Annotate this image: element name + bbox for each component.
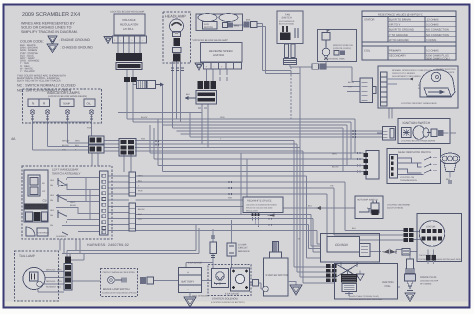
wire: top sub-bus xyxy=(118,112,202,114)
wire: indicator bus B4 xyxy=(104,151,335,283)
svg-text:BLK: BLK xyxy=(446,178,451,181)
wire: main bus A6 to ignition xyxy=(181,133,383,135)
svg-text:BLK/R TO GROUND: BLK/R TO GROUND xyxy=(389,29,414,32)
wire: fan motor feed xyxy=(233,24,291,71)
wire: solenoid to starter motor xyxy=(250,283,263,289)
svg-text:CIRCUIT AT O.SERIES: CIRCUIT AT O.SERIES xyxy=(392,72,415,75)
ground at starter motor xyxy=(288,282,302,296)
bullet connectors CDI to coil xyxy=(381,249,410,256)
magneto lower pin pair xyxy=(426,255,436,261)
wire: throttle connector taps xyxy=(343,87,360,92)
svg-text:Y/R: Y/R xyxy=(348,86,352,89)
note: two color wires xyxy=(17,75,66,83)
svg-text:BRN: BRN xyxy=(246,19,251,22)
svg-text:GRN: GRN xyxy=(332,153,337,156)
tail lamp LP2 xyxy=(15,251,63,301)
wire: indicator bus B3 xyxy=(104,148,336,278)
svg-text:MOTOR: MOTOR xyxy=(204,26,213,29)
ground at voltage regulator xyxy=(104,37,112,44)
wire: fan switch drop (solid) xyxy=(299,67,301,148)
svg-text:0.2 OHMS: 0.2 OHMS xyxy=(426,24,439,27)
hot lamp switch S4 xyxy=(355,196,411,219)
wire: handlebar box to lower bus xyxy=(60,239,80,254)
wire: harness run P10 xyxy=(136,231,321,245)
brake lamp switch S5 xyxy=(101,269,138,297)
wire: handlebar strip stubs xyxy=(108,176,129,231)
indicator lamp TEMP xyxy=(60,99,74,107)
wire: gear row 1 xyxy=(150,125,364,153)
wire: harness run P2 xyxy=(136,182,404,231)
svg-text:BLK: BLK xyxy=(186,93,191,96)
ignition switch S2 xyxy=(398,119,450,144)
headlamp LP1 xyxy=(163,12,191,63)
svg-text:REGULATOR: REGULATOR xyxy=(246,210,258,213)
throttle harness connector xyxy=(348,78,376,103)
svg-text:LOCATED ON ENGINE: LOCATED ON ENGINE xyxy=(387,204,411,207)
svg-text:LOCATED ON: LOCATED ON xyxy=(400,176,414,179)
svg-text:W TO GROUND: W TO GROUND xyxy=(389,39,409,42)
svg-text:GROUND: GROUND xyxy=(46,280,56,283)
svg-text:BATTERY: BATTERY xyxy=(182,280,195,284)
svg-text:OVERRIDE: OVERRIDE xyxy=(38,232,50,235)
svg-text:COIL: COIL xyxy=(364,50,371,53)
svg-text:RED/WHITE SPLICE: RED/WHITE SPLICE xyxy=(247,200,272,203)
svg-text:LIMITER: LIMITER xyxy=(213,53,224,57)
svg-text:LOCATED BELOW HEADLAMP: LOCATED BELOW HEADLAMP xyxy=(110,11,145,14)
wire: tail lamp leads xyxy=(38,272,64,293)
svg-text:BLK/R: BLK/R xyxy=(348,81,355,84)
svg-text:CIRCUIT SHOWN IN FREE POSN: CIRCUIT SHOWN IN FREE POSN xyxy=(103,271,136,274)
wire: main bus A1 xyxy=(127,119,364,153)
svg-text:GRN: GRN xyxy=(57,269,62,272)
gear indicator switch S3 xyxy=(387,149,441,184)
svg-text:Y TO GROUND: Y TO GROUND xyxy=(389,34,408,37)
wire: harness run P8 xyxy=(136,219,321,253)
ground at spark plug xyxy=(405,293,415,302)
wire: main bus A5 to ignition xyxy=(177,130,383,132)
starter solenoid K1 xyxy=(208,265,251,304)
svg-text:BLK/Y RED WITH YELLOW TRACER: BLK/Y RED WITH YELLOW TRACER xyxy=(17,80,61,83)
CDI box U3 xyxy=(321,234,380,263)
wire: regulator strip to connector xyxy=(118,43,140,53)
svg-text:(CLUTCH SIDE): (CLUTCH SIDE) xyxy=(387,207,403,210)
reverse override bar xyxy=(25,204,48,210)
throttle pin strip xyxy=(381,72,388,106)
wire: gear row 4 xyxy=(163,125,364,172)
svg-text:HEADLAMP: HEADLAMP xyxy=(165,15,186,19)
svg-text:.23 OHMS: .23 OHMS xyxy=(426,19,439,22)
svg-text:INDICATOR LAMPS: INDICATOR LAMPS xyxy=(47,91,80,95)
ground at coil xyxy=(357,271,365,281)
ignition coil T1 xyxy=(335,264,398,302)
svg-text:: CHASSIS GROUND: : CHASSIS GROUND xyxy=(60,46,93,50)
wire: headlamp drops xyxy=(173,62,181,129)
svg-text:-: - xyxy=(214,64,215,68)
fan lead connector block xyxy=(284,59,297,65)
wire: gear row 3 xyxy=(158,119,364,166)
fan inline connector xyxy=(244,22,258,28)
wire: tail to brake run xyxy=(72,280,212,283)
svg-text:REV.OVERRIDE: REV.OVERRIDE xyxy=(26,206,45,209)
svg-text:HARNESS: 2460789-02: HARNESS: 2460789-02 xyxy=(87,243,129,247)
wire: CDI to bullet connectors xyxy=(370,251,381,253)
wire: main bus A7 to ignition xyxy=(190,113,383,138)
wire: headlamp connector ticks xyxy=(171,68,184,71)
svg-text:NO CONNECTION: NO CONNECTION xyxy=(426,29,449,32)
magneto connector (round) xyxy=(419,221,445,247)
svg-text:OF ENGINE: OF ENGINE xyxy=(420,283,432,286)
svg-text:BEAM: BEAM xyxy=(70,204,76,207)
wire: harness run P7 xyxy=(136,215,321,247)
wire: speedo sensor lead xyxy=(377,132,388,134)
headlamp inline connector J3 xyxy=(137,81,164,89)
thumb throttle assembly xyxy=(378,66,458,108)
ground at battery xyxy=(184,293,196,308)
svg-text:STARTER SOLENOID: STARTER SOLENOID xyxy=(212,298,238,301)
svg-text:Y/R TO Y: Y/R TO Y xyxy=(389,24,401,27)
cooling fan assembly M1 xyxy=(196,14,243,31)
svg-text:SIMPLIFY TRACING IN DIAGRAM.: SIMPLIFY TRACING IN DIAGRAM. xyxy=(21,30,78,34)
indicator lamp harness connector J4 xyxy=(62,136,104,153)
harness junction connector J2 xyxy=(185,81,217,104)
resistance table xyxy=(362,11,456,61)
tail lamp connector xyxy=(64,257,72,291)
svg-text:TRANSMISSION: TRANSMISSION xyxy=(400,179,417,182)
svg-text:IGNITION: IGNITION xyxy=(382,281,394,284)
harness connector J5 xyxy=(119,139,136,157)
svg-text:STATOR LOCATED UNDER ROTOR (MA: STATOR LOCATED UNDER ROTOR (MAG SIDE) xyxy=(419,258,462,261)
svg-text:BLU/W: BLU/W xyxy=(62,144,69,147)
wire: water sender drop xyxy=(325,62,327,68)
switch contacts xyxy=(50,179,76,238)
svg-text:(BLACK CABLE TO SPARK PLUG): (BLACK CABLE TO SPARK PLUG) xyxy=(349,295,379,298)
svg-text:RESISTANCE VALUES @ 68°F/20°C: RESISTANCE VALUES @ 68°F/20°C xyxy=(378,13,423,16)
wire: harness run P3 xyxy=(136,188,404,235)
svg-text:GRN: GRN xyxy=(220,116,225,119)
horn button xyxy=(26,227,35,236)
wire: inline connector ticks on harness runs xyxy=(156,140,272,225)
wire: gear row 2 xyxy=(154,128,364,159)
wire: lamp drop R xyxy=(48,114,89,146)
svg-text:W: W xyxy=(298,238,300,241)
svg-text:R/W: R/W xyxy=(141,138,145,141)
wire: bullets to spark plug boot xyxy=(410,252,417,260)
wire: harness run P4 xyxy=(136,194,404,240)
wire: harness run P5 to splice xyxy=(136,199,244,201)
svg-text:R/W: R/W xyxy=(228,197,232,200)
limiter pin strip xyxy=(204,63,242,70)
svg-text:OVERRIDE: OVERRIDE xyxy=(56,235,67,238)
svg-text:(LOCATED IN FRONT OF BATTERY): (LOCATED IN FRONT OF BATTERY) xyxy=(211,301,245,304)
svg-text:GRN: GRN xyxy=(138,175,143,178)
wire: fuse into solenoid xyxy=(212,263,214,269)
svg-text:STARTER MOTOR: STARTER MOTOR xyxy=(266,274,288,277)
svg-text:LOCATED ON RIGHT HANDLEBAR: LOCATED ON RIGHT HANDLEBAR xyxy=(401,102,437,105)
voltage regulator U1 xyxy=(110,11,145,36)
wire: ignition switch feed xyxy=(389,108,392,119)
wire: handlebar internal runs xyxy=(56,178,100,232)
svg-text:SPLICE IN CDI AND VOLTAGE: SPLICE IN CDI AND VOLTAGE xyxy=(246,207,273,210)
ground at limiter xyxy=(195,63,203,70)
svg-text:WATER W/OIL TANK: WATER W/OIL TANK xyxy=(324,58,345,61)
svg-text:2009 SCRAMBLER 2X4: 2009 SCRAMBLER 2X4 xyxy=(22,12,80,18)
svg-text:LR 38-1: LR 38-1 xyxy=(123,27,134,31)
svg-text:BLU: BLU xyxy=(308,205,312,208)
svg-text:HI: HI xyxy=(42,182,45,185)
legend: chassis ground symbol xyxy=(47,44,93,53)
wire: gear feed ticks xyxy=(358,152,360,173)
wire: regulator drops to bus xyxy=(127,85,133,123)
wire: inline connector to drop xyxy=(133,85,164,126)
wire: lamp drop N xyxy=(33,114,89,150)
wire: solenoid inline connector xyxy=(253,280,259,287)
svg-text:T/W: T/W xyxy=(62,149,66,152)
light switch row xyxy=(26,212,33,221)
voltage regulator pin strip xyxy=(113,36,147,43)
svg-text:STATOR: STATOR xyxy=(364,19,375,22)
wire: splice to hot lamp switch xyxy=(283,207,355,209)
svg-text:SPARK PLUG: SPARK PLUG xyxy=(420,276,436,279)
indicator lamp OIL xyxy=(84,99,95,107)
svg-text:BLK/W: BLK/W xyxy=(332,166,339,169)
svg-text:GRN/W: GRN/W xyxy=(62,140,69,143)
regulator lower connector xyxy=(124,77,137,82)
svg-text:CB: CB xyxy=(43,199,47,203)
wire: lower bus L2 xyxy=(62,228,199,260)
svg-text:LOCATED ON TOP: LOCATED ON TOP xyxy=(420,280,439,283)
svg-text:OIL: OIL xyxy=(87,102,92,106)
svg-text:REGULATOR: REGULATOR xyxy=(120,23,139,27)
wire: inline connector ticks on lamp drops xyxy=(31,117,93,119)
battery BT1 xyxy=(179,262,210,298)
indicator lamp R xyxy=(39,99,50,107)
engine / stator boundary box xyxy=(417,214,462,262)
svg-text:0 OHMS: 0 OHMS xyxy=(426,39,437,42)
svg-text:PUR: PUR xyxy=(87,127,92,130)
wire: ignition right lead xyxy=(444,132,457,134)
wire: main bus A3 xyxy=(163,125,364,166)
svg-text:GROUND: GROUND xyxy=(46,269,56,272)
svg-text:-: - xyxy=(120,38,121,42)
svg-text:4A: 4A xyxy=(11,137,16,141)
svg-text:LOCATED BELOW REAR RACK LAMP: LOCATED BELOW REAR RACK LAMP xyxy=(350,298,384,301)
circuit breaker CB1 10 amp xyxy=(227,232,250,266)
wire: main bus A2 xyxy=(133,122,364,159)
svg-text:: ENGINE GROUND: : ENGINE GROUND xyxy=(59,38,90,42)
wire: fan switch to water sender xyxy=(290,67,360,82)
svg-text:HOTLAMP SWITCH: HOTLAMP SWITCH xyxy=(357,199,378,202)
indicator lamp N xyxy=(28,99,39,107)
wire: regulator connector down xyxy=(127,70,133,85)
wire: connector J4 drops to handlebar xyxy=(92,154,98,167)
wire: lamp drop TEMP xyxy=(68,114,89,143)
svg-text:BRN: BRN xyxy=(234,25,239,28)
svg-text:6 GA GAUGE: 6 GA GAUGE xyxy=(188,262,203,265)
wire: coil to plug body xyxy=(398,286,401,288)
svg-text:LOCATED IN HARNESS BETWEEN: LOCATED IN HARNESS BETWEEN xyxy=(246,204,277,207)
fan switch S1 xyxy=(277,11,303,44)
svg-text:BREAKER: BREAKER xyxy=(238,250,250,253)
wire: limiter to junction connector xyxy=(207,69,228,81)
note: wires represented by solid or dashed lines xyxy=(21,22,78,34)
regulator connector block J1 xyxy=(116,53,142,70)
page edge light strip xyxy=(5,302,468,307)
svg-text:COIL: COIL xyxy=(385,285,392,288)
svg-text:5800 OHMS (COIL): 5800 OHMS (COIL) xyxy=(426,58,450,61)
svg-text:WATER CLOSE ON: WATER CLOSE ON xyxy=(333,44,353,47)
wire: ignition feed ticks xyxy=(353,130,355,138)
svg-text:BLU: BLU xyxy=(75,144,80,147)
svg-text:TEMP: TEMP xyxy=(63,102,71,106)
wire: fan switch lead bars xyxy=(285,40,294,44)
wire: drop to splice region xyxy=(241,153,247,215)
throttle housing dome xyxy=(420,70,455,97)
svg-text:Y : YELLOW: Y : YELLOW xyxy=(20,70,35,73)
svg-text:BLK/W: BLK/W xyxy=(141,116,147,119)
svg-text:CDI BOX: CDI BOX xyxy=(335,243,349,247)
wire: fan switch drop (dashed) xyxy=(290,67,292,119)
ignition switch connector xyxy=(383,127,396,141)
water temp / oil sender box xyxy=(318,30,357,62)
svg-text:+: + xyxy=(187,270,189,274)
svg-text:TAIL LAMP: TAIL LAMP xyxy=(19,254,35,258)
wire junction X (harness to coil) xyxy=(336,264,358,277)
svg-text:HI/LO: HI/LO xyxy=(70,201,76,204)
wire: battery positive to fuse xyxy=(186,254,213,268)
svg-text:NC : SWITCH NORMALLY CLOSED: NC : SWITCH NORMALLY CLOSED xyxy=(17,84,76,88)
svg-text:(LOW OIL LEVEL): (LOW OIL LEVEL) xyxy=(333,47,351,50)
svg-text:6 GA GAUGE: 6 GA GAUGE xyxy=(225,292,240,295)
engine harness connector (black pins) xyxy=(404,228,414,242)
svg-text:BLU: BLU xyxy=(57,286,62,289)
wire: magneto to lower pins xyxy=(428,250,434,265)
svg-text:BRAKE LAMP SWITCH: BRAKE LAMP SWITCH xyxy=(103,288,130,291)
wire: breaker feeds xyxy=(231,220,233,268)
svg-text:GEAR INDICATOR SWITCH: GEAR INDICATOR SWITCH xyxy=(398,151,431,154)
svg-text:COLOR CODE:: COLOR CODE: xyxy=(20,40,44,44)
svg-text:LO: LO xyxy=(42,190,45,193)
color code list xyxy=(20,40,44,74)
legend: engine ground symbol xyxy=(48,36,90,44)
svg-text:GRN: GRN xyxy=(57,280,62,283)
engine harness pin block xyxy=(326,264,336,282)
svg-text:(LOCATED BELOW HANDLEBARS): (LOCATED BELOW HANDLEBARS) xyxy=(48,95,87,98)
speedometer sensor xyxy=(440,153,460,183)
svg-text:BLK: BLK xyxy=(138,213,143,216)
svg-text:BLK: BLK xyxy=(352,227,356,230)
wire: fan motor return xyxy=(257,27,300,74)
wire: junction connector drops xyxy=(198,105,208,148)
svg-text:LOCATED BELOW HANDLEBARS: LOCATED BELOW HANDLEBARS xyxy=(401,140,436,143)
wire: inline connector on fan line xyxy=(312,64,326,69)
brake switch connector xyxy=(140,277,154,284)
svg-text:*LOCATED BELOW HEADLAMP*: *LOCATED BELOW HEADLAMP* xyxy=(192,39,228,42)
wire: lamp drop OIL xyxy=(33,114,92,136)
svg-text:0.2 OHMS: 0.2 OHMS xyxy=(426,50,439,53)
svg-text:BLK/W: BLK/W xyxy=(138,208,145,211)
note: NC NO switch xyxy=(17,84,76,93)
wire: main bus A4 xyxy=(173,128,364,172)
svg-text:NORMAL OPERATION 12 OHM (COLD): NORMAL OPERATION 12 OHM (COLD) xyxy=(392,69,432,72)
wire: indicator bus B1 xyxy=(104,141,336,268)
spark plug P1 xyxy=(405,259,439,291)
red/white splice xyxy=(243,197,283,227)
svg-text:BOTTOM TANK): BOTTOM TANK) xyxy=(279,22,294,25)
svg-text:-: - xyxy=(142,38,143,42)
svg-text:SWITCH: SWITCH xyxy=(282,17,292,20)
svg-text:Y/R: Y/R xyxy=(330,185,334,188)
wire: harness run P1 xyxy=(136,176,321,258)
wire: harness run P9 xyxy=(136,225,321,249)
handlebar pin strip xyxy=(100,171,109,235)
wire: indicator bus B2 xyxy=(104,144,336,272)
svg-text:IGNITION SWITCH: IGNITION SWITCH xyxy=(403,121,431,125)
svg-text:GRN: GRN xyxy=(75,140,80,143)
svg-text:BLK/R TO BRN/W: BLK/R TO BRN/W xyxy=(389,19,411,22)
svg-text:RUNNING: RUNNING xyxy=(46,286,56,289)
wire: connector J5 drops to strips xyxy=(124,153,131,173)
lamp bulb symbols xyxy=(30,110,94,115)
wire: harness run P6 xyxy=(136,206,244,208)
svg-text:BLU: BLU xyxy=(138,180,143,183)
svg-text:VOLTAGE: VOLTAGE xyxy=(122,18,136,22)
svg-text:ADJUSTMENT 2 REQUIRED: ADJUSTMENT 2 REQUIRED xyxy=(392,75,421,78)
wire: lower bus L1 xyxy=(67,225,196,257)
wire: engine connector stubs xyxy=(396,232,422,255)
svg-text:PRIMARY: PRIMARY xyxy=(389,50,401,53)
reverse speed limiter U2 xyxy=(192,39,242,62)
handlebar housing xyxy=(24,170,48,222)
svg-text:NO CONNECTION: NO CONNECTION xyxy=(426,34,449,37)
svg-text:STATOR: STATOR xyxy=(426,226,436,229)
wire: CDI drops to junction xyxy=(341,262,357,267)
svg-text:PUR: PUR xyxy=(138,190,143,193)
indicator lamps box xyxy=(23,89,102,123)
svg-text:SECONDARY: SECONDARY xyxy=(389,55,406,58)
starter motor M2 xyxy=(263,242,288,297)
main fuse F1 xyxy=(210,229,217,267)
svg-text:CLOSED WITH HAND BRAKE APPLIED: CLOSED WITH HAND BRAKE APPLIED xyxy=(102,292,137,295)
gear switch harness connector J6 xyxy=(332,151,379,180)
left handlebar switch assembly xyxy=(22,166,112,239)
handlebar harness connector strips xyxy=(129,172,145,231)
svg-text:SWITCH ASSEMBLY: SWITCH ASSEMBLY xyxy=(52,172,80,176)
